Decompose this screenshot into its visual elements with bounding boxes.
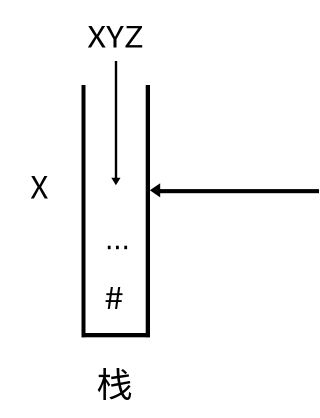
push arrow (vertical, into stack) (111, 61, 120, 185)
label # (stack bottom element) (106, 287, 123, 309)
label X (left of stack) (31, 176, 48, 199)
stack right wall (146, 85, 150, 337)
caption 栈 (stack) (98, 368, 131, 400)
stack bottom (82, 333, 151, 337)
ellipsis dots (stack middle contents) (108, 246, 127, 250)
stack left wall (82, 85, 86, 337)
label XYZ (top value being pushed) (88, 26, 142, 48)
pointer arrow (horizontal, pointing left at stack top element) (150, 183, 319, 197)
